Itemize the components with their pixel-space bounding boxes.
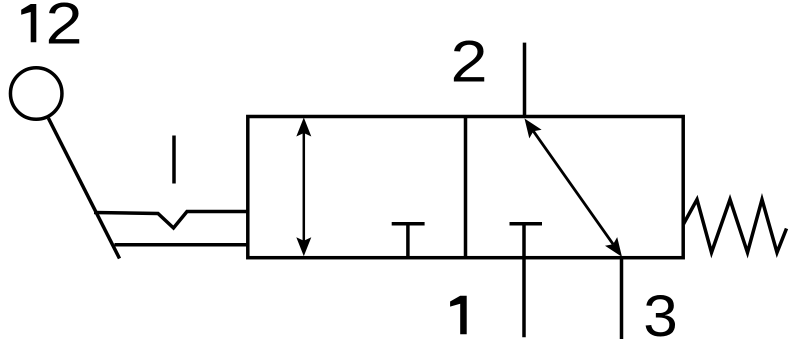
svg-text:3: 3 <box>643 284 678 345</box>
svg-text:2: 2 <box>45 0 82 56</box>
svg-text:2: 2 <box>451 30 488 95</box>
